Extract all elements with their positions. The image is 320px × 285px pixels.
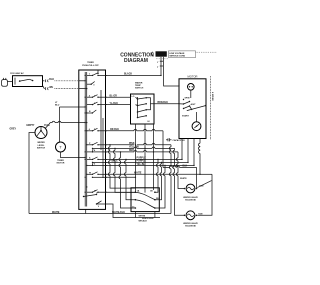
connector block [131, 188, 159, 212]
svg-text:WHITE-BLK: WHITE-BLK [112, 212, 125, 214]
timer contact PURPLE2 [92, 162, 107, 163]
timer contact OR-BLK [86, 128, 107, 131]
timer contact to connector [85, 190, 108, 193]
timer contact TM return [79, 157, 86, 158]
wire WH short [106, 177, 137, 178]
svg-text:SWITCH: SWITCH [135, 88, 144, 90]
wire timer to connector [106, 191, 136, 193]
svg-text:WHITE: WHITE [52, 212, 60, 214]
vertical RED drop to hot valve [177, 152, 185, 189]
svg-text:4 SPEED: 4 SPEED [211, 92, 214, 101]
svg-text:WATER: WATER [135, 81, 143, 84]
vertical PURPLE2 branch [160, 162, 162, 187]
svg-text:BRN-BLK: BRN-BLK [158, 102, 169, 104]
svg-text:EMPTY: EMPTY [27, 125, 35, 127]
water temp switch [131, 81, 155, 124]
svg-text:RED: RED [129, 150, 134, 152]
valve solenoid cold [183, 211, 203, 227]
wire PURPLE [106, 158, 183, 161]
motor thermal protector [178, 84, 194, 91]
svg-text:BL-GR: BL-GR [110, 95, 118, 97]
bottom bus WHITE-BLK [106, 204, 161, 218]
svg-text:SWITCH: SWITCH [37, 147, 46, 149]
svg-text:PUSH-PULL OFF: PUSH-PULL OFF [82, 65, 99, 67]
timer motor [56, 142, 79, 164]
svg-text:LINE VOLTAGE: LINE VOLTAGE [169, 52, 185, 55]
vertical temp switch drop 1 [134, 124, 136, 192]
timer bottom riser [85, 209, 87, 213]
vertical branch V4 to connector [125, 159, 136, 200]
svg-text:WH: WH [49, 87, 53, 89]
motor bottom leads [182, 139, 200, 175]
svg-text:MOTOR: MOTOR [188, 74, 198, 78]
bottom bus WHITE [29, 212, 171, 214]
wire PURPLE2 [106, 161, 189, 163]
vertical temp switch drop 2 [144, 124, 146, 190]
timer contact RED [87, 149, 107, 153]
vertical YELLOW drop to cold valve [173, 148, 185, 215]
svg-text:GREY: GREY [10, 128, 17, 130]
timer contact bottom [83, 193, 106, 208]
wire PINK [106, 143, 172, 146]
wire YEL-BLK2 [106, 164, 195, 166]
motor box [179, 74, 206, 138]
temp switch internals [132, 96, 155, 123]
capacitor [166, 138, 185, 142]
svg-text:BLACK: BLACK [124, 72, 132, 75]
motor centrifugal switch [182, 112, 201, 131]
svg-text:WATER VALVE: WATER VALVE [183, 222, 198, 225]
timer contact YL-BLK [87, 102, 107, 105]
dashed vertical right of motor [211, 76, 215, 140]
vertical branch V3 to connector [119, 151, 135, 208]
svg-text:TAN: TAN [199, 185, 204, 188]
svg-text:BLK: BLK [183, 165, 188, 167]
svg-text:WATER: WATER [37, 141, 45, 144]
svg-text:SOLENOID: SOLENOID [185, 199, 196, 201]
legend tick symbols [157, 61, 163, 69]
legend black block [152, 51, 217, 59]
svg-text:BLU: BLU [55, 105, 60, 107]
vertical branch V2 to connector [114, 148, 136, 193]
timer contact WH short [92, 177, 107, 178]
wire RED [106, 150, 179, 153]
timer internal bus [85, 70, 104, 207]
wire YELLOW [106, 147, 175, 150]
svg-text:WHITE: WHITE [134, 173, 142, 175]
wire grey left vertical [29, 133, 35, 214]
timer contact dashed inputs [79, 80, 95, 89]
svg-text:SOLENOID: SOLENOID [185, 225, 196, 227]
timer box [79, 62, 106, 209]
timer contact PURPLE [85, 157, 108, 160]
vertical YEL-BLK2 branch [164, 165, 165, 189]
svg-text:MOTOR: MOTOR [57, 162, 65, 164]
valve solenoid hot [180, 178, 212, 201]
svg-text:SERVICE CORD: SERVICE CORD [169, 56, 185, 58]
wire WHITE long [106, 173, 213, 216]
wire to motor from legend [164, 57, 179, 86]
timer contact YL-BL [87, 162, 107, 166]
svg-text:PINK: PINK [129, 143, 135, 145]
vertical branch V1 to connector [109, 144, 136, 188]
timer contact LT-BLU [79, 106, 97, 113]
title CONNECTION DIAGRAM [120, 53, 154, 65]
timer contact BK [85, 73, 108, 76]
svg-text:BLK: BLK [49, 79, 54, 81]
wire water level switch to timer with humps [45, 121, 79, 128]
water level switch [10, 125, 51, 150]
timer contact WHITE [86, 172, 107, 175]
wire BLACK horizontal timer to legend [106, 72, 162, 76]
svg-text:WATER VALVE: WATER VALVE [183, 196, 198, 199]
wire BLK from power cord [43, 79, 79, 82]
timer contact YELLOW [92, 148, 107, 149]
wire YL-BLK [106, 103, 131, 105]
timer contact PINK [87, 142, 107, 145]
wire WH from power cord [43, 85, 79, 90]
wire BL-GR [106, 95, 131, 97]
svg-text:DIAGRAM: DIAGRAM [124, 58, 148, 64]
svg-text:CAPACITOR: CAPACITOR [173, 139, 186, 142]
svg-text:115V 60HZ AC: 115V 60HZ AC [10, 72, 24, 75]
motor internal contacts [179, 90, 206, 111]
svg-text:OR-BLK: OR-BLK [110, 129, 119, 131]
svg-text:SPIN: SPIN [185, 98, 190, 100]
timer contact BL-GR [85, 94, 108, 98]
vertical PINK drop [170, 145, 171, 214]
svg-text:LO: LO [132, 96, 135, 98]
svg-text:WH-BLK: WH-BLK [139, 221, 148, 223]
power cord box [2, 72, 43, 86]
svg-text:AGIT: AGIT [191, 103, 197, 106]
wire LT-BLU timer to timer motor [55, 102, 79, 142]
connector entries from branches [155, 185, 165, 208]
wire BLK lower [106, 129, 197, 189]
wire BLACK vertical from legend [160, 57, 162, 76]
svg-text:WHITE: WHITE [180, 178, 187, 180]
vertical temp switch drop 3 [153, 124, 155, 190]
timer contact hum wire [79, 122, 86, 123]
vertical PURPLE branch to connector [157, 159, 159, 185]
svg-text:START: START [182, 115, 190, 118]
wire BRN-BLK temp switch to motor [154, 102, 179, 104]
connector bottom drops [135, 212, 155, 223]
svg-text:YL-BLK: YL-BLK [110, 103, 119, 105]
